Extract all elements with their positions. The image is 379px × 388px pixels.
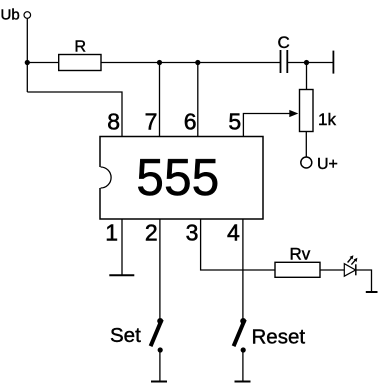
- wire pin 5 to wiper: [243, 114, 289, 137]
- svg-text:6: 6: [184, 108, 197, 134]
- svg-text:Set: Set: [110, 324, 141, 347]
- terminal Ub: [1, 7, 31, 24]
- svg-text:R: R: [75, 38, 87, 55]
- svg-text:8: 8: [107, 108, 120, 134]
- wire pin 3 to resistor Rv: [201, 219, 275, 270]
- svg-text:2: 2: [145, 220, 158, 246]
- ground under Reset: [235, 381, 251, 383]
- wire Ub terminal down past node A to lower elbow: [26, 18, 28, 92]
- wire pin 2 to switch Set: [159, 219, 161, 319]
- switch Reset: [234, 318, 306, 353]
- svg-text:4: 4: [227, 220, 240, 246]
- wire pin 4 to switch Reset: [242, 219, 244, 319]
- svg-text:7: 7: [145, 108, 158, 134]
- wire elbow to pin 8: [27, 92, 122, 137]
- wire pin 1 to ground: [121, 219, 123, 275]
- svg-text:Reset: Reset: [252, 326, 306, 349]
- resistor R: [59, 38, 101, 70]
- switch Set: [110, 318, 163, 353]
- wire node A to resistor R: [27, 62, 58, 64]
- wire potentiometer to terminal U+: [305, 132, 307, 157]
- ground under Set: [151, 381, 167, 383]
- wire resistor Rv to LED: [320, 269, 344, 271]
- wiper arrow into potentiometer: [289, 110, 298, 117]
- terminal U+: [301, 156, 338, 173]
- node C junction (pin 6): [195, 60, 200, 65]
- svg-text:3: 3: [186, 220, 199, 246]
- svg-text:555: 555: [136, 149, 219, 207]
- wire node D to potentiometer: [306, 63, 308, 90]
- svg-text:5: 5: [228, 108, 241, 134]
- ground under LED: [366, 291, 378, 293]
- wire pin 7: [159, 63, 161, 137]
- svg-text:C: C: [278, 33, 290, 52]
- ground under pin 1: [109, 274, 134, 276]
- node B junction (pin 7): [157, 60, 162, 65]
- wire capacitor C to open terminal: [287, 62, 333, 64]
- LED D1: [344, 255, 357, 276]
- svg-text:1: 1: [105, 220, 118, 246]
- resistor Rv: [275, 245, 320, 278]
- wire LED to ground: [356, 270, 372, 292]
- potentiometer 1k: [300, 90, 337, 132]
- svg-text:1k: 1k: [318, 110, 336, 129]
- IC U1 555 timer body: [100, 137, 263, 220]
- wire resistor R to capacitor C: [101, 62, 281, 64]
- svg-text:U+: U+: [317, 156, 338, 173]
- svg-text:Rv: Rv: [290, 245, 311, 264]
- node A junction dot: [25, 60, 30, 65]
- svg-text:Ub: Ub: [1, 7, 20, 24]
- open terminal bar: [332, 51, 334, 74]
- wire switch Reset to ground: [242, 353, 244, 382]
- wire switch Set to ground: [159, 353, 161, 382]
- node D junction (pot top): [304, 60, 309, 65]
- wire pin 6: [197, 63, 199, 137]
- capacitor C: [278, 33, 290, 73]
